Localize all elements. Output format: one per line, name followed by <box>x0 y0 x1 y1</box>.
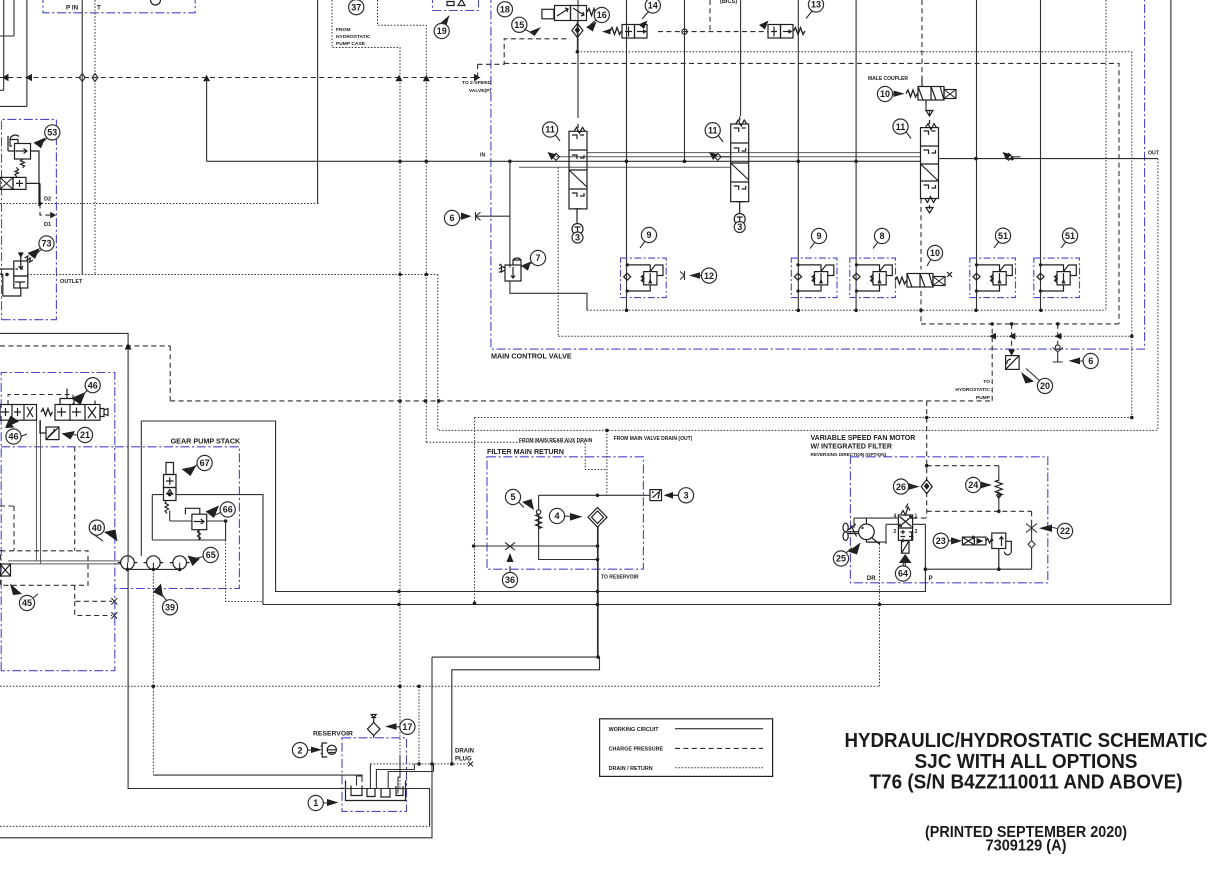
wire pump1 down to reservoir elbow <box>128 569 430 826</box>
svg-text:3: 3 <box>737 222 742 232</box>
spool valve 11 (third) <box>921 111 939 214</box>
breather symbols in item19 box <box>447 0 465 6</box>
wire P IN vertical <box>81 0 83 275</box>
arrow into item20 <box>1008 350 1015 356</box>
svg-text:FROM: FROM <box>336 27 350 33</box>
valve item 13 <box>602 21 805 39</box>
svg-text:11: 11 <box>896 122 906 132</box>
wire main IN line <box>207 160 921 162</box>
arrow item 2 <box>311 747 322 753</box>
node 53 <box>45 125 60 140</box>
svg-text:3: 3 <box>915 529 918 535</box>
svg-text:17: 17 <box>402 722 412 732</box>
arrow label 11a <box>548 152 557 160</box>
wire item24 feed <box>998 466 1000 481</box>
arrow item 7 <box>521 262 531 271</box>
item 45 symbol <box>0 564 11 576</box>
svg-text:4: 4 <box>554 511 559 521</box>
wire fan valve pilot <box>913 517 927 519</box>
valve item 15/18 assembly <box>542 6 599 21</box>
arrow item 39 <box>153 584 163 598</box>
gear pump 3 (item 65) <box>170 556 190 570</box>
wire dashed fan inner top <box>927 465 999 467</box>
wire left bank pilot stubs <box>75 585 112 615</box>
wire left bank pilot x74 <box>74 447 76 551</box>
svg-text:FROM MAIN REAR AUX DRAIN: FROM MAIN REAR AUX DRAIN <box>519 438 593 444</box>
relief valve item 51 (first) <box>970 258 1016 298</box>
svg-text:HYDRAULIC/HYDROSTATIC SCHEMATI: HYDRAULIC/HYDROSTATIC SCHEMATIC <box>845 729 1208 752</box>
wire tank stepped elbow b <box>452 658 600 764</box>
svg-text:14: 14 <box>648 1 658 11</box>
svg-text:PLUG: PLUG <box>455 757 472 763</box>
svg-text:WORKING CIRCUIT: WORKING CIRCUIT <box>609 727 660 733</box>
arrow item 36 <box>507 553 514 562</box>
svg-text:FROM MAIN VALVE DRAIN (OUT): FROM MAIN VALVE DRAIN (OUT) <box>614 436 693 442</box>
valve bank right section <box>41 389 108 421</box>
wire feeder x626 <box>626 0 628 310</box>
node 18 <box>497 2 512 17</box>
wire feeder valve1 col <box>577 0 579 118</box>
svg-text:TO: TO <box>983 379 990 385</box>
node 40 <box>89 520 104 535</box>
item 36 closed port X <box>505 543 515 551</box>
gear pump 2 (item 39) <box>144 556 164 570</box>
svg-text:DR: DR <box>867 576 876 582</box>
fan propeller <box>843 523 859 540</box>
svg-text:D1: D1 <box>44 222 51 228</box>
item 6 check (left) <box>476 212 485 221</box>
wire tank stepped elbow a <box>432 527 598 658</box>
node 51b <box>1062 228 1077 243</box>
node 13 <box>808 0 823 12</box>
junction diamonds on charge bus <box>79 74 98 82</box>
svg-text:OUT: OUT <box>1148 151 1160 157</box>
node 25 <box>833 551 848 566</box>
node 12 <box>701 268 716 283</box>
wire outlet drain drop x438 <box>437 275 439 431</box>
spool valve 11 (second) <box>731 117 749 225</box>
valve item 14 <box>610 21 648 39</box>
wire drain y826 <box>0 825 430 827</box>
wire charge elbow x170 <box>169 346 171 401</box>
svg-text:39: 39 <box>165 603 175 613</box>
node 23 <box>933 533 948 548</box>
svg-text:6: 6 <box>449 213 454 223</box>
node 3a <box>572 232 583 243</box>
svg-text:MAIN CONTROL VALVE: MAIN CONTROL VALVE <box>491 352 572 361</box>
item 5 bypass spring check <box>536 510 542 529</box>
group box main control valve <box>491 0 1145 349</box>
drain plug end mark <box>468 762 473 767</box>
node 5 <box>505 489 520 504</box>
svg-text:36: 36 <box>505 575 515 585</box>
node 3b <box>734 222 745 233</box>
svg-text:PUMP: PUMP <box>976 395 991 401</box>
svg-text:9: 9 <box>646 230 651 240</box>
wire item6 tap <box>484 161 510 216</box>
svg-text:9: 9 <box>816 231 821 241</box>
node 10 top <box>877 86 892 101</box>
wire valve10 dashed riser <box>920 199 922 324</box>
node 65 <box>203 547 218 562</box>
item 67 unloader valve <box>164 463 177 514</box>
wire feeder x798 <box>797 0 799 310</box>
svg-text:(BICS): (BICS) <box>720 0 737 5</box>
arrow item 67 <box>182 466 197 476</box>
pump circle partial in P IN box <box>151 0 161 5</box>
item 6b vent symbol <box>1053 345 1063 362</box>
relief valve item 9 (second) <box>791 258 837 298</box>
wire bottom long return solid <box>0 657 432 838</box>
arrow item 53 <box>34 138 46 149</box>
arrows+junctions x399/x426 charge bus <box>396 75 430 81</box>
junction dots filter <box>596 494 600 498</box>
wire item7 drain <box>510 281 587 310</box>
svg-text:21: 21 <box>80 430 90 440</box>
reservoir pipes down <box>357 756 401 794</box>
wire pump bottoms bus <box>128 563 181 570</box>
wire dashed to item20 <box>1011 324 1013 353</box>
fan motor title <box>811 435 916 457</box>
wire charge y345 left <box>0 345 170 347</box>
node 20 <box>1037 378 1052 393</box>
svg-text:19: 19 <box>437 26 447 36</box>
cut cylinder lines top-left <box>0 0 27 106</box>
node 3c <box>678 488 693 503</box>
multi-line small labels <box>336 27 991 401</box>
svg-text:51: 51 <box>998 231 1008 241</box>
wire right outer loop vertical <box>1170 0 1172 605</box>
svg-text:22: 22 <box>1060 526 1070 536</box>
node 37 <box>349 0 364 15</box>
wire spare drain riser x558 <box>557 167 559 336</box>
item 19 arrow <box>440 15 450 25</box>
wire aux drain to filter <box>426 442 607 469</box>
svg-text:HYDROSTATIC: HYDROSTATIC <box>336 34 371 40</box>
valve 11 first inlet check <box>553 153 560 160</box>
wire 2-speed elbow <box>478 39 570 78</box>
node 11a <box>543 122 558 137</box>
wire pump2 drain down <box>152 569 154 775</box>
node 26 <box>893 479 908 494</box>
item 73 relief valve <box>0 252 33 296</box>
wire dashed to item6b <box>1057 324 1059 349</box>
arrow item 25 <box>848 543 861 555</box>
item 3 pressure switch <box>650 490 662 501</box>
arrow item 26 <box>909 483 920 490</box>
group box reservoir <box>342 738 407 812</box>
wire aux elbow x377 <box>378 0 427 442</box>
svg-text:10: 10 <box>880 89 890 99</box>
svg-text:13: 13 <box>811 0 821 10</box>
group box item 19 breather (top center, cut off) <box>433 0 479 11</box>
svg-text:24: 24 <box>968 480 978 490</box>
wire charge y323 <box>921 323 1119 325</box>
node 45 <box>19 595 34 610</box>
wire D1 dashed <box>40 204 52 216</box>
svg-text:10: 10 <box>930 248 940 258</box>
wire item7 feed <box>509 216 511 267</box>
node 67 <box>197 455 212 470</box>
flow arrows on drain bus y336 <box>989 333 1062 340</box>
node 2 <box>292 743 307 758</box>
arrow item 5 <box>522 499 534 510</box>
node 36 <box>502 572 517 587</box>
item 17 breather <box>367 715 380 738</box>
wire reservoir drain plug line <box>370 763 470 765</box>
wire coupler col x922 <box>921 0 923 78</box>
wire D2 drain line <box>0 203 319 205</box>
wire main valve drain y430 <box>439 429 1158 431</box>
group box item 53 accessory valve <box>2 119 57 319</box>
arrow D1 into box53 <box>50 212 56 219</box>
svg-text:26: 26 <box>896 482 906 492</box>
relief valve item 8 <box>850 258 896 298</box>
node 15 <box>512 17 527 32</box>
fan P-DR bottom wire <box>925 568 1031 570</box>
node 11b <box>705 123 720 138</box>
svg-text:DRAIN / RETURN: DRAIN / RETURN <box>609 766 653 772</box>
svg-text:3: 3 <box>575 233 580 243</box>
svg-text:73: 73 <box>41 239 51 249</box>
group box filter main return <box>487 457 643 569</box>
fan solenoid below valve <box>899 541 912 568</box>
wire valve2 mid tap <box>519 166 731 168</box>
node 16 <box>594 7 609 22</box>
arrows on charge bus left <box>2 74 32 81</box>
svg-text:12: 12 <box>704 271 714 281</box>
arrow at x206 on charge bus <box>203 75 210 81</box>
wire feeder x1041 <box>1040 0 1042 310</box>
wire IN upper pair a <box>556 156 921 158</box>
svg-text:TO RESERVOIR: TO RESERVOIR <box>601 575 639 581</box>
dashed stub left edge y506 <box>0 506 14 551</box>
svg-text:RESERVOIR: RESERVOIR <box>313 731 353 738</box>
node 46a <box>85 378 100 393</box>
node 64 <box>895 566 910 581</box>
wire drain y686 <box>0 685 880 687</box>
gear pump 1 (item 40) <box>118 556 138 570</box>
node 8 <box>874 228 889 243</box>
left solenoid valve <box>0 167 40 203</box>
svg-text:11: 11 <box>708 125 718 135</box>
reservoir tank <box>346 781 406 801</box>
node 9a <box>641 227 656 242</box>
wire drain bus y336 <box>558 335 1132 337</box>
arrow item 73 <box>28 248 41 259</box>
wire IN upper pair b <box>587 152 921 154</box>
fan 4-way valve <box>894 504 918 543</box>
svg-text:W/ INTEGRATED FILTER: W/ INTEGRATED FILTER <box>811 444 892 451</box>
wire filter feed down <box>606 430 608 495</box>
node 4 <box>549 508 564 523</box>
svg-text:GEAR PUMP STACK: GEAR PUMP STACK <box>171 437 241 446</box>
node circle on 13-14 link <box>682 29 687 34</box>
wire OUT line <box>939 158 1158 160</box>
wire item67-66 link <box>170 511 192 522</box>
svg-text:66: 66 <box>223 505 233 515</box>
wire gear pump stack inner loop <box>152 488 176 540</box>
arrow item 1 <box>327 799 339 806</box>
svg-text:51: 51 <box>1065 231 1075 241</box>
svg-text:11: 11 <box>545 125 555 135</box>
arrow item 17 <box>385 723 400 729</box>
item 24 spring relief <box>995 480 1002 498</box>
node 1 <box>308 795 323 810</box>
svg-text:PUMP CASE: PUMP CASE <box>336 41 366 47</box>
arrow item 23 <box>951 537 962 544</box>
svg-text:15: 15 <box>514 20 524 30</box>
node 19 <box>434 23 449 38</box>
relief valve item 51 (second) <box>1034 258 1080 298</box>
group box gear pump stack <box>115 447 240 589</box>
svg-text:65: 65 <box>206 550 216 560</box>
wire fan P supply vertical <box>924 541 926 592</box>
svg-text:D2: D2 <box>44 197 51 203</box>
node 66 <box>220 502 235 517</box>
wire T return vertical <box>94 0 96 275</box>
svg-text:IN: IN <box>480 153 485 159</box>
wire hydrostatic dashed box right <box>991 324 993 401</box>
arrow label 11c <box>1003 152 1012 160</box>
node 51a <box>995 228 1010 243</box>
item 23 solenoid relief assembly <box>962 533 1011 569</box>
filter inner loop wires <box>474 495 650 559</box>
arrow item 46 top <box>72 392 86 405</box>
wire valve15 drain drop <box>576 21 578 52</box>
svg-text:3: 3 <box>683 491 688 501</box>
fan valve port wires <box>854 518 925 544</box>
svg-text:FILTER MAIN RETURN: FILTER MAIN RETURN <box>487 447 564 456</box>
node 22 <box>1057 523 1072 538</box>
svg-text:53: 53 <box>47 128 57 138</box>
svg-text:P IN: P IN <box>66 5 79 12</box>
item 16 check valve diamond <box>572 24 583 38</box>
item 22 check below <box>1028 533 1035 570</box>
svg-text:CHARGE PRESSURE: CHARGE PRESSURE <box>609 747 664 753</box>
svg-text:T76 (S/N B4ZZ110011 AND ABOVE): T76 (S/N B4ZZ110011 AND ABOVE) <box>870 771 1183 794</box>
arrow item 65 <box>188 556 201 567</box>
male coupler item 10 (lower) <box>895 272 952 287</box>
wire charge 13-14 link <box>658 31 768 33</box>
node 11c <box>893 119 908 134</box>
wire riser x317 top <box>317 0 319 204</box>
svg-text:46: 46 <box>8 432 18 442</box>
item 20 transducer box <box>1006 356 1020 370</box>
node 7 <box>530 250 545 265</box>
arrow item 16 <box>586 22 597 32</box>
wire item24 to dash bus <box>998 494 1000 512</box>
svg-text:6: 6 <box>1088 356 1093 366</box>
item 21 prop valve box <box>40 420 59 439</box>
svg-text:REVERSING DIRECTION (OPTION): REVERSING DIRECTION (OPTION) <box>811 452 887 457</box>
node 21 <box>77 427 92 442</box>
wire charge drop to fan x926 <box>926 401 928 481</box>
arrow item 24 <box>981 482 992 489</box>
svg-text:VARIABLE SPEED FAN MOTOR: VARIABLE SPEED FAN MOTOR <box>811 435 916 442</box>
wire mid riser x419 <box>418 686 420 764</box>
svg-text:5: 5 <box>510 492 515 502</box>
spool valve 11 (first) <box>569 124 587 235</box>
node 39 <box>162 600 177 615</box>
node 24 <box>966 477 981 492</box>
node 10b <box>927 245 942 260</box>
item 12 check <box>680 271 685 280</box>
wire feeder x856 <box>855 0 857 310</box>
svg-text:7309129 (A): 7309129 (A) <box>986 838 1067 855</box>
dashed pilot box above valve bank <box>8 395 73 406</box>
item 66 relief <box>185 508 206 540</box>
arrow item 20 <box>1021 372 1034 384</box>
arrow item 15 <box>529 27 541 36</box>
svg-text:OUTLET: OUTLET <box>60 279 83 285</box>
group box left aux valve bank <box>1 373 115 671</box>
wire drain return y417 <box>475 417 1132 419</box>
blue divider left box at y446 <box>1 446 115 448</box>
arrow item 12 <box>689 272 700 279</box>
wire 66 loop right <box>207 521 226 540</box>
wire hydro case drain elbow <box>332 0 400 790</box>
port plug x marks on blue edge <box>111 598 117 619</box>
svg-text:37: 37 <box>351 2 361 12</box>
arrow item 22 <box>1039 525 1052 532</box>
wire gear pump supply vertical into pumps <box>140 421 142 556</box>
svg-text:2: 2 <box>894 529 897 535</box>
svg-text:2: 2 <box>297 745 302 755</box>
node 17 <box>400 719 415 734</box>
node 73 <box>39 236 54 251</box>
svg-text:VALVE(P): VALVE(P) <box>469 88 491 94</box>
wire charge y63 to right <box>504 63 1119 324</box>
arrow label 11b <box>709 152 718 160</box>
fan motor circle <box>859 518 880 544</box>
wire right outer loop bottom to gear pump drain <box>176 495 1171 605</box>
wire fan dash bus y511 <box>927 510 1032 512</box>
arrow item 46 left <box>5 416 19 429</box>
node 6b <box>1083 353 1098 368</box>
arrow item 3 <box>664 492 674 499</box>
wire relief row collector (fine) <box>587 309 1106 311</box>
arrow item 6b <box>1069 358 1081 365</box>
svg-text:MALE COUPLER: MALE COUPLER <box>868 76 908 82</box>
node 46b <box>6 429 21 444</box>
svg-text:T: T <box>97 5 101 12</box>
wire valvebank risers double <box>37 420 41 564</box>
wire 67 loop bottom <box>152 530 225 540</box>
wire drain return west drop x474 <box>474 418 476 604</box>
pipe elbows above tank <box>357 764 434 776</box>
wire pump outlet to main IN riser <box>206 78 208 162</box>
valve bank left section <box>0 405 37 421</box>
wire dashed riser x710 <box>709 0 711 32</box>
wire top drain y51 <box>577 51 1131 53</box>
wire feeder x976 <box>976 0 978 310</box>
arrow item 40 <box>104 530 118 542</box>
group box P IN / T (top left, cut off) <box>43 0 195 13</box>
leader lines circles <box>21 11 1083 804</box>
svg-text:16: 16 <box>597 10 607 20</box>
item 53 relief valve <box>8 135 39 206</box>
svg-text:1: 1 <box>313 798 318 808</box>
valve 11 third inlet check <box>1005 153 1021 160</box>
item 26 check diamond <box>921 480 932 494</box>
charge bus end arrow <box>474 74 481 81</box>
wire 22 drop <box>1031 511 1033 523</box>
item 3 link wire <box>673 494 679 496</box>
item 2 strainer <box>321 743 337 757</box>
svg-text:HYDROSTATIC: HYDROSTATIC <box>955 387 990 393</box>
svg-text:18: 18 <box>500 5 510 15</box>
